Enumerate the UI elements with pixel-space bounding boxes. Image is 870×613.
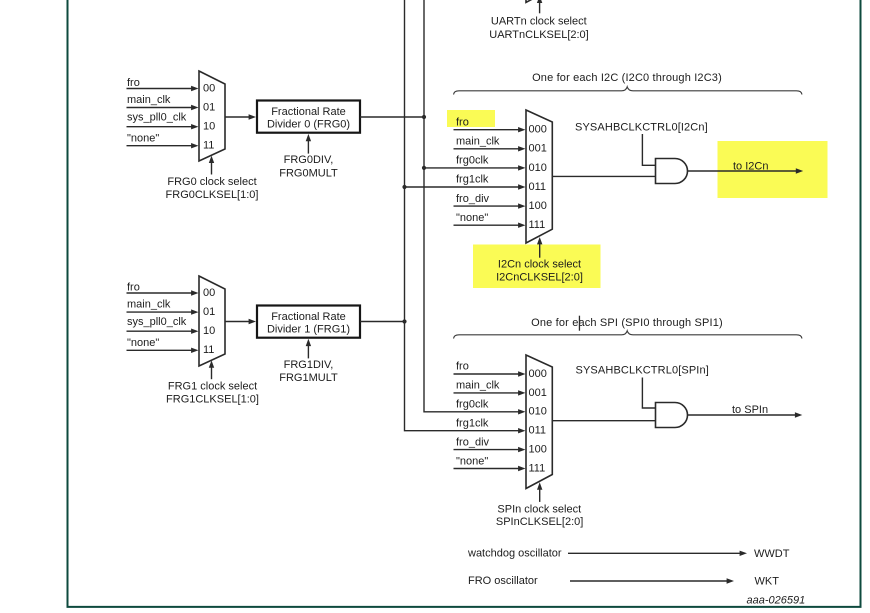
svg-text:10: 10: [203, 121, 215, 133]
block U3 Fractional Rate Divider 0 (FRG0): [257, 101, 360, 133]
wire main_clk to FRG0 mux: [127, 105, 199, 110]
junction frg0clk branch to I2C mux: [422, 166, 426, 170]
svg-text:watchdog oscillator: watchdog oscillator: [467, 547, 562, 559]
highlight: I2Cn clock select label: [473, 245, 601, 289]
wire sys_pll0_clk to FRG0 mux: [127, 124, 199, 129]
svg-text:main_clk: main_clk: [127, 299, 171, 311]
svg-text:01: 01: [203, 306, 215, 318]
svg-text:frg0clk: frg0clk: [456, 155, 489, 167]
wire I2C mux select arrow: [537, 237, 542, 258]
wire frg0clk branch to I2C mux: [424, 165, 526, 170]
svg-text:to I2Cn: to I2Cn: [733, 160, 768, 172]
svg-text:"none": "none": [456, 212, 488, 224]
and-gate U9 SPI clock gate: [656, 403, 688, 428]
wire frg1clk branch to I2C mux: [405, 184, 526, 189]
wire "none" to FRG0 mux: [127, 143, 199, 148]
wire FRG1DIV/FRG1MULT control arrow: [306, 339, 311, 359]
svg-text:010: 010: [529, 162, 547, 174]
wire fro to SPI mux: [454, 371, 526, 376]
svg-text:001: 001: [529, 387, 547, 399]
svg-text:fro: fro: [127, 77, 140, 89]
svg-text:I2Cn clock select: I2Cn clock select: [498, 259, 581, 271]
wire AND output to I2Cn: [688, 168, 803, 173]
wire I2C mux output to AND gate: [552, 175, 656, 177]
wire fro to FRG1 mux: [127, 290, 199, 295]
highlight: fro input of I2C mux: [447, 110, 495, 127]
svg-text:"none": "none": [127, 132, 159, 144]
svg-text:100: 100: [529, 444, 547, 456]
svg-text:FRG1DIV,: FRG1DIV,: [284, 359, 334, 371]
svg-text:Divider 1 (FRG1): Divider 1 (FRG1): [267, 324, 350, 336]
svg-text:SPInCLKSEL[2:0]: SPInCLKSEL[2:0]: [496, 516, 583, 528]
svg-text:FRG0CLKSEL[1:0]: FRG0CLKSEL[1:0]: [166, 189, 259, 201]
svg-text:main_clk: main_clk: [456, 136, 500, 148]
wire frg0clk vertical net to SPI mux input 010: [424, 0, 526, 414]
brace I2C section: [454, 87, 803, 95]
svg-text:111: 111: [529, 462, 546, 474]
and-gate U7 I2C clock gate: [656, 159, 688, 184]
wire "none" to SPI mux: [454, 466, 526, 471]
svg-text:010: 010: [529, 406, 547, 418]
wire AND output to SPIn: [688, 412, 802, 417]
wire SPI mux output to AND gate: [552, 420, 656, 422]
svg-text:FRG1 clock select: FRG1 clock select: [168, 381, 257, 393]
junction frg0clk / FRG0 output: [422, 115, 426, 119]
wire FRO oscillator to WKT: [570, 578, 734, 583]
wire FRG1 mux output to FRD1: [225, 319, 256, 324]
mux U6 I2Cn clock select: [526, 110, 552, 243]
svg-text:FRG0 clock select: FRG0 clock select: [167, 176, 256, 188]
wire main_clk to I2C mux: [454, 146, 526, 151]
svg-text:WKT: WKT: [755, 576, 780, 588]
svg-text:011: 011: [529, 181, 547, 193]
svg-text:I2CnCLKSEL[2:0]: I2CnCLKSEL[2:0]: [496, 271, 583, 283]
text cursor artifact: [579, 316, 580, 331]
junction frg1clk branch to I2C mux: [402, 185, 406, 189]
svg-text:sys_pll0_clk: sys_pll0_clk: [127, 112, 187, 124]
svg-text:000: 000: [529, 124, 547, 136]
wire FRG0 mux output to FRD0: [225, 114, 256, 119]
wire SPI mux select arrow: [537, 482, 542, 502]
svg-text:to SPIn: to SPIn: [732, 404, 768, 416]
svg-text:11: 11: [203, 344, 214, 356]
wire fro to I2C mux: [454, 127, 526, 132]
svg-text:One for each I2C (I2C0 through: One for each I2C (I2C0 through I2C3): [532, 72, 722, 84]
wire SYSAHBCLKCTRL0[I2Cn] to AND gate: [642, 134, 655, 165]
wire fro_div to SPI mux: [454, 447, 526, 452]
wire fro to FRG0 mux: [127, 86, 199, 91]
wire frg1clk vertical net to SPI mux input 011: [405, 0, 526, 433]
svg-text:frg1clk: frg1clk: [456, 418, 489, 430]
svg-text:11: 11: [203, 140, 214, 152]
highlight: to I2Cn output: [718, 141, 828, 198]
wire FRG0 mux select arrow: [209, 156, 214, 175]
wire FRG0DIV/FRG0MULT control arrow: [306, 134, 311, 154]
wire "none" to FRG1 mux: [127, 348, 199, 353]
mux U1 UARTn clock select (clipped at top): [526, 0, 552, 2]
svg-text:aaa-026591: aaa-026591: [747, 595, 806, 607]
svg-text:sys_pll0_clk: sys_pll0_clk: [127, 316, 187, 328]
svg-text:fro: fro: [456, 361, 469, 373]
wire FRG0 output to frg0clk net: [360, 116, 424, 118]
svg-text:001: 001: [529, 143, 547, 155]
wire UARTn select arrow: [537, 0, 542, 13]
svg-text:SYSAHBCLKCTRL0[SPIn]: SYSAHBCLKCTRL0[SPIn]: [576, 364, 709, 376]
svg-text:fro: fro: [456, 116, 469, 128]
svg-text:00: 00: [203, 287, 215, 299]
svg-text:Divider 0 (FRG0): Divider 0 (FRG0): [267, 119, 350, 131]
svg-text:00: 00: [203, 82, 215, 94]
svg-text:111: 111: [529, 219, 546, 231]
wire "none" to I2C mux: [454, 223, 526, 228]
svg-text:100: 100: [529, 200, 547, 212]
svg-text:main_clk: main_clk: [127, 94, 171, 106]
svg-text:"none": "none": [456, 455, 488, 467]
svg-text:WWDT: WWDT: [754, 548, 790, 560]
brace SPI section: [454, 331, 803, 339]
svg-text:FRG1CLKSEL[1:0]: FRG1CLKSEL[1:0]: [166, 394, 259, 406]
svg-text:011: 011: [529, 425, 547, 437]
wire FRG1 output to frg1clk net: [360, 321, 405, 323]
mux U2 FRG0 clock select: [199, 71, 225, 161]
wire watchdog oscillator to WWDT: [568, 551, 747, 556]
svg-text:FRG1MULT: FRG1MULT: [279, 372, 338, 384]
svg-text:frg1clk: frg1clk: [456, 174, 489, 186]
svg-text:FRG0DIV,: FRG0DIV,: [284, 154, 334, 166]
mux U4 FRG1 clock select: [199, 276, 225, 366]
svg-text:UARTnCLKSEL[2:0]: UARTnCLKSEL[2:0]: [489, 29, 588, 41]
svg-text:FRG0MULT: FRG0MULT: [279, 167, 338, 179]
wire main_clk to SPI mux: [454, 390, 526, 395]
svg-text:10: 10: [203, 325, 215, 337]
svg-text:"none": "none": [127, 337, 159, 349]
svg-text:frg0clk: frg0clk: [456, 399, 489, 411]
svg-text:main_clk: main_clk: [456, 380, 500, 392]
svg-text:Fractional Rate: Fractional Rate: [271, 106, 346, 118]
svg-text:One for each SPI (SPI0 through: One for each SPI (SPI0 through SPI1): [531, 317, 723, 329]
svg-text:FRO oscillator: FRO oscillator: [468, 575, 538, 587]
block U5 Fractional Rate Divider 1 (FRG1): [257, 306, 360, 338]
wire main_clk to FRG1 mux: [127, 309, 199, 314]
wire sys_pll0_clk to FRG1 mux: [127, 329, 199, 334]
svg-text:fro_div: fro_div: [456, 193, 490, 205]
svg-text:SPIn clock select: SPIn clock select: [497, 503, 581, 515]
svg-text:fro_div: fro_div: [456, 436, 490, 448]
svg-text:SYSAHBCLKCTRL0[I2Cn]: SYSAHBCLKCTRL0[I2Cn]: [575, 122, 708, 134]
svg-text:UARTn clock select: UARTn clock select: [491, 16, 587, 28]
svg-text:000: 000: [529, 368, 547, 380]
svg-text:01: 01: [203, 101, 215, 113]
mux U8 SPIn clock select: [526, 355, 552, 489]
svg-text:Fractional Rate: Fractional Rate: [271, 311, 346, 323]
wire SYSAHBCLKCTRL0[SPIn] to AND gate: [642, 378, 655, 409]
junction frg1clk / FRG1 output: [402, 319, 406, 323]
wire FRG1 mux select arrow: [209, 360, 214, 379]
svg-text:fro: fro: [127, 281, 140, 293]
wire fro_div to I2C mux: [454, 203, 526, 208]
